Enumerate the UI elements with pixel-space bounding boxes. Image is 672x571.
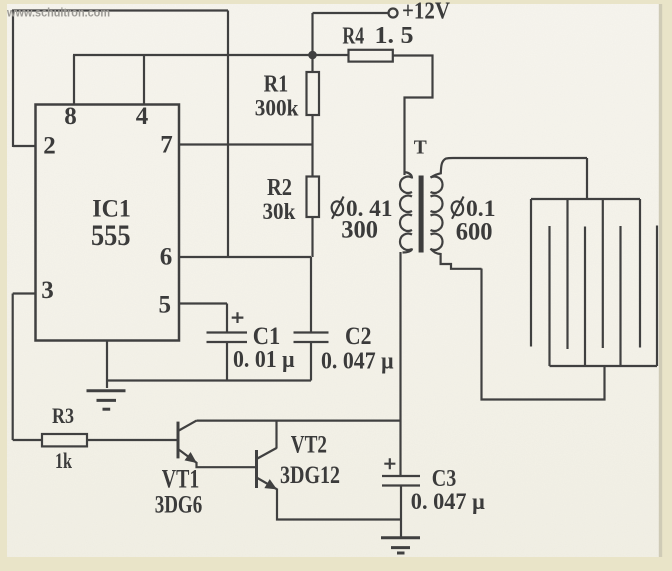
svg-text:5: 5 (159, 292, 172, 319)
svg-text:R1: R1 (264, 72, 289, 98)
svg-text:555: 555 (91, 220, 131, 252)
svg-text:3DG6: 3DG6 (155, 492, 203, 519)
svg-text:R3: R3 (52, 403, 74, 428)
svg-text:7: 7 (160, 132, 173, 159)
svg-text:4: 4 (136, 103, 149, 130)
svg-text:3: 3 (41, 277, 54, 304)
svg-text:1k: 1k (55, 448, 73, 473)
svg-text:0.1: 0.1 (466, 196, 496, 221)
svg-text:0. 01 μ: 0. 01 μ (233, 347, 295, 373)
svg-text:C2: C2 (345, 321, 372, 350)
svg-text:T: T (414, 137, 427, 158)
svg-text:600: 600 (456, 219, 493, 246)
svg-text:8: 8 (64, 103, 77, 130)
svg-text:R4: R4 (342, 24, 364, 50)
svg-text:0. 047 μ: 0. 047 μ (411, 489, 485, 514)
svg-text:+12V: +12V (402, 0, 450, 25)
svg-text:VT2: VT2 (291, 432, 327, 459)
svg-text:www.schuitron.com: www.schuitron.com (6, 8, 110, 20)
svg-text:30k: 30k (263, 199, 296, 224)
svg-text:6: 6 (160, 244, 173, 271)
svg-text:R2: R2 (267, 175, 292, 201)
svg-text:300: 300 (341, 216, 378, 243)
svg-text:0. 047 μ: 0. 047 μ (321, 348, 394, 374)
svg-text:300k: 300k (255, 96, 299, 121)
svg-text:IC1: IC1 (92, 196, 131, 223)
svg-text:VT1: VT1 (162, 465, 200, 494)
svg-text:2: 2 (43, 133, 56, 160)
svg-text:1. 5: 1. 5 (375, 23, 414, 49)
svg-text:C1: C1 (253, 321, 280, 350)
svg-text:3DG12: 3DG12 (280, 462, 340, 489)
